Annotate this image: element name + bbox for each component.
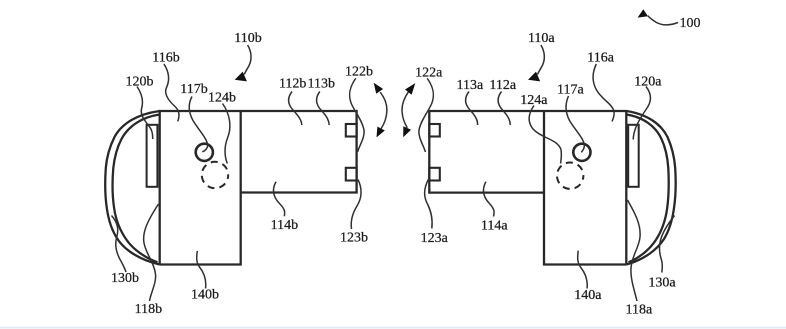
leader 124b — [223, 104, 230, 164]
svg-text:114a: 114a — [481, 219, 508, 234]
leader 117b — [189, 97, 207, 152]
leader 122b — [350, 78, 365, 152]
leader 140a — [578, 251, 588, 289]
svg-text:116b: 116b — [152, 51, 179, 66]
right dashed circle 124a — [557, 163, 583, 189]
right outer arc 130a — [626, 111, 675, 265]
left contact square top 123b — [346, 124, 357, 137]
svg-text:118a: 118a — [626, 303, 653, 318]
left dashed circle 124b — [202, 162, 228, 188]
arrow 110a — [528, 45, 544, 81]
leader 130a — [659, 216, 674, 273]
svg-text:112a: 112a — [489, 78, 516, 93]
svg-text:123b: 123b — [340, 230, 368, 245]
leader 116b — [164, 64, 179, 121]
svg-text:110a: 110a — [528, 31, 555, 46]
double arrow left 122b — [374, 83, 387, 138]
svg-text:113b: 113b — [308, 77, 335, 92]
svg-text:140b: 140b — [191, 288, 219, 303]
leader 124a — [529, 106, 561, 164]
svg-text:114b: 114b — [271, 218, 298, 233]
svg-text:110b: 110b — [234, 31, 261, 46]
svg-text:117a: 117a — [557, 82, 584, 97]
svg-text:113a: 113a — [457, 78, 484, 93]
leader 117a — [566, 96, 584, 152]
leader 113a — [466, 92, 478, 126]
svg-text:116a: 116a — [587, 51, 614, 66]
svg-text:117b: 117b — [180, 82, 207, 97]
leader 113b — [317, 92, 330, 126]
svg-text:120a: 120a — [634, 74, 662, 89]
leader 130b — [112, 216, 127, 273]
right earbud body outline 110a — [429, 111, 626, 265]
right window rect 120a — [628, 125, 639, 187]
left earbud body outline 110b — [160, 111, 357, 265]
leader 120b — [137, 87, 153, 140]
svg-text:124a: 124a — [520, 93, 548, 108]
leader 112b — [289, 92, 302, 126]
svg-text:122a: 122a — [415, 65, 443, 80]
svg-text:120b: 120b — [126, 74, 154, 89]
arrow 100 — [638, 9, 678, 25]
right solid circle 117a — [573, 144, 590, 161]
svg-text:140a: 140a — [574, 288, 602, 303]
svg-text:123a: 123a — [421, 231, 449, 246]
left inner arc — [113, 115, 160, 263]
svg-text:122b: 122b — [345, 65, 373, 80]
leader 114a — [483, 182, 494, 217]
leader 123a — [425, 180, 432, 229]
right contact square bottom 123a — [429, 168, 440, 181]
leader 140b — [197, 251, 206, 289]
left solid circle 117b — [196, 144, 213, 161]
svg-text:118b: 118b — [135, 302, 162, 317]
left window rect 120b — [147, 125, 158, 187]
double arrow right 122a — [402, 83, 415, 137]
svg-text:130a: 130a — [648, 276, 676, 291]
leader 114b — [273, 182, 284, 217]
bottom divider band — [0, 327, 786, 329]
svg-text:112b: 112b — [279, 77, 306, 92]
leader 123b — [351, 180, 361, 230]
leader 120a — [633, 87, 650, 140]
left outer arc 130b — [105, 111, 159, 265]
arrow 110b — [235, 45, 251, 81]
right inner arc — [626, 115, 668, 263]
leader 112a — [498, 92, 510, 126]
leader 116a — [593, 64, 614, 122]
right contact square top 123a — [429, 124, 440, 137]
leader 118b — [144, 204, 159, 301]
svg-text:130b: 130b — [111, 271, 139, 286]
left contact square bottom 123b — [346, 168, 357, 181]
svg-text:124b: 124b — [208, 90, 236, 105]
leader 122a — [419, 78, 434, 152]
leader 118a — [628, 200, 641, 301]
svg-text:100: 100 — [680, 16, 701, 31]
